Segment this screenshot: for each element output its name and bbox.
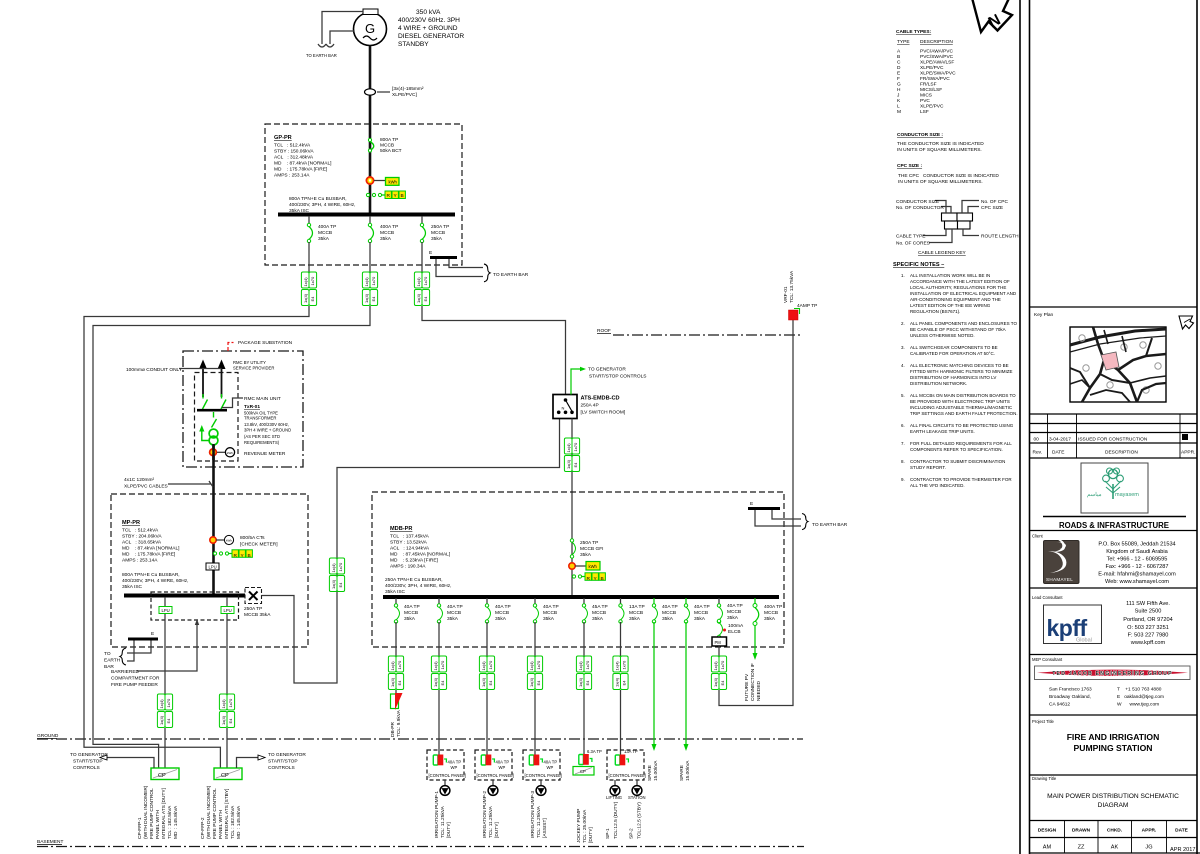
svg-text:JG: JG <box>1145 845 1152 851</box>
svg-text:6.: 6. <box>901 423 905 428</box>
transformer TxR-01 symbol <box>209 429 218 445</box>
svg-text:EARTH: EARTH <box>104 658 121 664</box>
svg-text:IRRIGATION PUMP-2: IRRIGATION PUMP-2 <box>482 791 488 838</box>
signature table <box>1038 821 1196 854</box>
svg-text:LPU: LPU <box>209 565 217 570</box>
svg-text:MD : 145.8kVA: MD : 145.8kVA <box>236 805 242 839</box>
svg-text:250A 4P: 250A 4P <box>581 403 599 409</box>
svg-text:40A TP: 40A TP <box>727 603 743 609</box>
svg-text:H: H <box>897 87 901 93</box>
svg-text:AMPS : 253.14A: AMPS : 253.14A <box>122 558 158 564</box>
svg-text:TO: TO <box>104 651 111 657</box>
svg-text:NEEDED: NEEDED <box>756 680 762 701</box>
svg-text:PUMPING STATION: PUMPING STATION <box>1074 743 1153 753</box>
svg-text:4x1C 120mm²: 4x1C 120mm² <box>124 477 155 483</box>
svg-text:M: M <box>897 109 901 115</box>
package substation enclosure <box>183 340 303 467</box>
MP-PR panel data <box>122 520 180 564</box>
GP-PR feeder breaker 400A no.1 <box>307 216 336 272</box>
CP-FFP-1 label <box>137 785 179 839</box>
north arrow <box>971 0 1012 32</box>
svg-text:P.O. Box 55089, Jeddah 21534: P.O. Box 55089, Jeddah 21534 <box>1098 542 1175 548</box>
svg-text:CABLE TYPES:: CABLE TYPES: <box>896 29 932 35</box>
svg-text:TCL : 512.4kVA: TCL : 512.4kVA <box>274 143 311 149</box>
MDB-PR kWh meter <box>569 562 600 571</box>
svg-text:35kA: 35kA <box>727 615 739 621</box>
generator earth wires to earth bar <box>306 12 363 59</box>
irrigation pump-2 <box>482 780 500 838</box>
MP-PR changeover switch 250A <box>244 588 271 619</box>
DB-PR feeder flag <box>390 690 403 737</box>
MDB branch 8 spare breaker 40A <box>679 598 710 781</box>
MP-PR R-Y-B indicating lamps <box>213 550 252 559</box>
svg-text:111 SW Fifth Ave.: 111 SW Fifth Ave. <box>1126 601 1170 607</box>
svg-text:CA 94612: CA 94612 <box>1049 702 1070 708</box>
svg-text:START/STOP CONTROLS: START/STOP CONTROLS <box>589 374 647 380</box>
svg-text:مياسم: مياسم <box>1087 491 1102 498</box>
svg-text:1.: 1. <box>901 273 905 278</box>
svg-text:(AS PER SEC STD: (AS PER SEC STD <box>244 434 280 439</box>
VRF roof isolator 4AMP <box>783 270 817 320</box>
svg-text:MAIN POWER DISTRIBUTION SCHEMA: MAIN POWER DISTRIBUTION SCHEMATIC <box>1047 793 1179 800</box>
svg-text:No. OF CPC: No. OF CPC <box>981 199 1008 205</box>
svg-text:MD : 145.8kVA: MD : 145.8kVA <box>173 805 179 839</box>
client section <box>1032 534 1176 586</box>
svg-text:ZZ: ZZ <box>1078 845 1085 851</box>
svg-text:[CONTROL PANEL]: [CONTROL PANEL] <box>429 773 466 778</box>
svg-text:ALL INSTALLATION WORK WILL BE: ALL INSTALLATION WORK WILL BE IN <box>910 273 990 278</box>
svg-text:F: 503 227 7980: F: 503 227 7980 <box>1128 633 1169 639</box>
svg-text:MICS: MICS <box>920 93 932 99</box>
svg-text:INCLUDING ADJUSTABLE THERMAL/M: INCLUDING ADJUSTABLE THERMAL/MAGNETIC <box>910 405 1013 410</box>
svg-text:CP: CP <box>158 773 166 779</box>
svg-text:MCCB: MCCB <box>543 610 557 616</box>
svg-text:Key Plan: Key Plan <box>1034 312 1054 318</box>
svg-text:B: B <box>897 54 900 60</box>
key plan <box>1034 312 1166 402</box>
svg-text:MCCB: MCCB <box>764 610 778 616</box>
svg-text:MCCB GFI: MCCB GFI <box>580 546 603 552</box>
transformer earthing arrow <box>199 425 209 441</box>
svg-text:SP-1: SP-1 <box>605 828 611 839</box>
svg-text:[CHECK METER]: [CHECK METER] <box>240 542 278 548</box>
svg-text:40A TP: 40A TP <box>544 760 558 765</box>
MP-PR barriered compartment <box>151 592 239 620</box>
svg-text:MCCB: MCCB <box>727 609 741 615</box>
svg-text:STATION: STATION <box>628 795 646 800</box>
svg-text:ROADS & INFRASTRUCTURE: ROADS & INFRASTRUCTURE <box>1059 521 1169 530</box>
svg-text:R: R <box>234 553 238 559</box>
svg-text:TCL:12.5 (STBY): TCL:12.5 (STBY) <box>637 802 643 839</box>
svg-text:FOR FULL DETAILED REQUIREMENTS: FOR FULL DETAILED REQUIREMENTS FOR ALL <box>910 441 1012 446</box>
svg-text:ELCB: ELCB <box>728 629 741 635</box>
svg-text:DESCRIPTION: DESCRIPTION <box>1105 450 1138 456</box>
svg-text:MCCB 35kA: MCCB 35kA <box>244 612 271 618</box>
CT symbol on generator cable <box>365 86 424 98</box>
svg-text:O: 503 227 3251: O: 503 227 3251 <box>1127 625 1169 631</box>
svg-text:13A TP: 13A TP <box>629 604 645 610</box>
svg-text:ACL : 124.94kVA: ACL : 124.94kVA <box>390 546 430 552</box>
svg-text:MCCB: MCCB <box>629 610 643 616</box>
CP-FFP-2 label <box>200 785 242 839</box>
svg-text:DESIGN: DESIGN <box>1038 828 1057 834</box>
svg-text:9.: 9. <box>901 477 905 482</box>
wire branch 5 to jockey pump starter <box>583 690 585 754</box>
svg-text:2.: 2. <box>901 321 905 326</box>
svg-text:XLPE/PVC CABLES: XLPE/PVC CABLES <box>124 484 168 490</box>
svg-text:400A TP: 400A TP <box>318 224 336 230</box>
svg-text:FITTED WITH HARMONIC FILTERS T: FITTED WITH HARMONIC FILTERS TO MINIMIZE <box>910 369 1013 374</box>
conduit note <box>126 367 222 373</box>
svg-text:MD : 87.4kVA [NORMAL]: MD : 87.4kVA [NORMAL] <box>122 546 180 552</box>
svg-text:ALL MCCBs ON MAIN DISTRIBUTION: ALL MCCBs ON MAIN DISTRIBUTION BOARDS TO <box>910 393 1016 398</box>
RMU label <box>222 396 281 408</box>
wire MP-PR changeover to ATS normal input <box>262 419 560 684</box>
svg-text:SHAMAYEL: SHAMAYEL <box>1046 577 1073 582</box>
svg-text:35kA ISC: 35kA ISC <box>385 589 406 595</box>
svg-text:MCCB: MCCB <box>380 230 394 236</box>
svg-text:800/5A CTs: 800/5A CTs <box>240 535 265 541</box>
svg-text:35kA: 35kA <box>662 616 674 622</box>
svg-text:R: R <box>387 193 391 199</box>
MDB branch 5 breaker 45A (jockey pump) <box>582 598 607 656</box>
generator main cable down <box>369 46 372 214</box>
svg-text:kWh: kWh <box>589 564 598 569</box>
barriered compartment note <box>111 619 199 688</box>
irrigation pump-1 control panel <box>427 750 466 780</box>
svg-text:(WITH DUAL INCOMER): (WITH DUAL INCOMER) <box>206 785 212 839</box>
svg-text:FIRE PUMP FEEDER: FIRE PUMP FEEDER <box>111 682 158 688</box>
svg-text:CPC SIZE: CPC SIZE <box>981 205 1003 211</box>
notes: cable types table <box>896 29 956 115</box>
svg-text:35kA: 35kA <box>543 616 555 622</box>
cable legend key diagram <box>896 199 1019 256</box>
RMU inner dashed enclosure <box>195 373 239 462</box>
svg-text:35kA: 35kA <box>592 616 604 622</box>
svg-text:DIESEL GENERATOR: DIESEL GENERATOR <box>398 33 464 40</box>
svg-text:3PH 4 WIRE + GROUND: 3PH 4 WIRE + GROUND <box>244 428 291 433</box>
svg-text:LATEST EDITION OF THE IEE WIRI: LATEST EDITION OF THE IEE WIRING <box>910 303 991 308</box>
wire fire feeder 2 to CP <box>226 728 228 768</box>
svg-text:CONTRACTOR TO SUBMIT DISCRIMIN: CONTRACTOR TO SUBMIT DISCRIMINATION <box>910 459 1005 464</box>
svg-text:TYPE: TYPE <box>897 39 910 45</box>
svg-text:[DUTY]: [DUTY] <box>446 822 452 838</box>
svg-text:IRRIGATION PUMP-1: IRRIGATION PUMP-1 <box>434 791 440 838</box>
CP-FFP-2 generator control wire <box>237 752 307 771</box>
svg-text:TCL : 25.00kVA: TCL : 25.00kVA <box>582 809 588 843</box>
svg-text:STBY : 204.06kVA: STBY : 204.06kVA <box>122 534 162 540</box>
MEP consultant section <box>1032 657 1190 708</box>
svg-text:LSF: LSF <box>920 109 929 115</box>
svg-text:E: E <box>897 71 900 77</box>
svg-text:13A TP: 13A TP <box>624 749 638 754</box>
svg-text:UNLESS OTHERWISE NOTED.: UNLESS OTHERWISE NOTED. <box>910 333 975 338</box>
transformer isolator switch <box>212 412 217 428</box>
MP-PR fire feeder 1 LPU <box>159 597 172 694</box>
wire branch 4 to control panel <box>534 690 536 756</box>
MDB branch 10 breaker 400A (future PV) <box>744 598 782 701</box>
GP-PR feeder breaker 250A no.3 <box>420 216 449 272</box>
svg-text:MCCB: MCCB <box>431 230 445 236</box>
MP-PR fire feeder 1 cable tag <box>157 694 172 728</box>
svg-text:CONTROLS: CONTROLS <box>268 765 295 771</box>
svg-text:MCCB: MCCB <box>592 610 606 616</box>
ground level line <box>37 733 803 739</box>
VRF PPM meter box <box>712 637 727 656</box>
svg-text:C: C <box>897 60 901 66</box>
svg-text:AM: AM <box>1043 845 1052 851</box>
revenue meter <box>210 445 286 460</box>
svg-text:TCL:12.5 (DUTY): TCL:12.5 (DUTY) <box>613 801 619 839</box>
GP-PR feeder 2 cable tag <box>362 272 377 306</box>
svg-text:ROUTE LENGTH: ROUTE LENGTH <box>981 234 1019 240</box>
svg-text:E: E <box>151 631 154 637</box>
svg-text:DRAWN: DRAWN <box>1072 828 1091 834</box>
transformer LV cable down to MP-PR <box>212 444 215 594</box>
svg-text:FIRE AND IRRIGATION: FIRE AND IRRIGATION <box>1067 732 1160 742</box>
jockey pump label <box>576 809 594 843</box>
svg-text:APR 2017: APR 2017 <box>1170 847 1196 853</box>
svg-text:3-04-2017: 3-04-2017 <box>1049 437 1071 443</box>
svg-text:www.kpff.com: www.kpff.com <box>1130 640 1166 646</box>
lifting station control panel <box>607 749 646 780</box>
svg-text:Web: www.shamayel.com: Web: www.shamayel.com <box>1105 579 1169 585</box>
wire GP-PR feeder3 to ATS standby input <box>422 306 566 395</box>
svg-text:B: B <box>401 193 404 199</box>
GP-PR busbar <box>278 213 455 217</box>
svg-text:350 kVA: 350 kVA <box>416 9 441 16</box>
MP-PR fire feeder 2 cable tag <box>219 694 234 728</box>
svg-text:4.: 4. <box>901 363 905 368</box>
svg-text:LPU: LPU <box>224 608 232 613</box>
irrigation pump-3 control panel <box>523 750 562 780</box>
svg-text:PVC/AWA/PVC: PVC/AWA/PVC <box>920 49 953 55</box>
svg-text:WP: WP <box>547 765 554 770</box>
svg-text:35kA: 35kA <box>380 236 392 242</box>
svg-text:MCCB: MCCB <box>495 610 509 616</box>
drawing title section <box>1032 776 1179 809</box>
svg-text:FIRE PUMP CONTROL: FIRE PUMP CONTROL <box>149 788 155 839</box>
svg-text:6.3A TP: 6.3A TP <box>587 749 602 754</box>
svg-text:MCCB: MCCB <box>662 610 676 616</box>
MP-PR panel dashed enclosure <box>111 494 308 647</box>
svg-text:ACL : 312.48kVA: ACL : 312.48kVA <box>274 155 314 161</box>
svg-text:ALL PANEL COMPONENTS AND ENCLO: ALL PANEL COMPONENTS AND ENCLOSURES TO <box>910 321 1017 326</box>
svg-text:TCL: 11.25kVA: TCL: 11.25kVA <box>536 805 542 838</box>
svg-text:XLPE/PVC]: XLPE/PVC] <box>392 92 417 98</box>
svg-text:400/230V, 3PH, 4 WIRE, 60Hz,: 400/230V, 3PH, 4 WIRE, 60Hz, <box>385 583 451 589</box>
utility incoming feeder arrows <box>199 360 226 398</box>
svg-text:35kA: 35kA <box>318 236 330 242</box>
GP-PR R-Y-B indicating lamps <box>366 191 405 199</box>
svg-text:JOCKEY PUMP: JOCKEY PUMP <box>576 809 582 843</box>
svg-text:TCL : 182.5kVA: TCL : 182.5kVA <box>167 805 173 839</box>
svg-text:35kA: 35kA <box>447 616 459 622</box>
svg-text:ACCORDANCE WITH THE LATEST EDI: ACCORDANCE WITH THE LATEST EDITION OF <box>910 279 1010 284</box>
svg-text:BAR: BAR <box>104 664 114 670</box>
svg-text:DB-PR: DB-PR <box>390 722 396 737</box>
CP-FFP-1 generator control wire <box>70 752 154 771</box>
basement level line <box>37 839 804 847</box>
svg-text:PVC: PVC <box>920 98 930 104</box>
svg-text:CONNECTION IF: CONNECTION IF <box>750 663 756 701</box>
MDB branch 3 cable tag <box>479 656 494 690</box>
svg-text:No. OF CONDUCTOR: No. OF CONDUCTOR <box>896 205 944 211</box>
svg-text:THE CONDUCTOR SIZE IS INDICATE: THE CONDUCTOR SIZE IS INDICATED <box>897 141 984 147</box>
lifting station pumps SP-1 SP-2 <box>605 780 646 839</box>
svg-text:800A TPN+E Cu BUSBAR,: 800A TPN+E Cu BUSBAR, <box>122 572 180 578</box>
svg-text:DISTRIBUTION NETWORK.: DISTRIBUTION NETWORK. <box>910 381 967 386</box>
svg-text:STBY : 150.06kVA: STBY : 150.06kVA <box>274 149 314 155</box>
svg-text:35kA ISC: 35kA ISC <box>122 584 143 590</box>
MDB branch 7 spare breaker 40A <box>647 598 678 781</box>
jockey pump VFD starter <box>579 749 602 765</box>
svg-text:40A TP: 40A TP <box>662 604 678 610</box>
svg-text:400/230V, 3PH, 4 WIRE, 60Hz,: 400/230V, 3PH, 4 WIRE, 60Hz, <box>289 202 355 208</box>
svg-text:TCL : 182.5kVA: TCL : 182.5kVA <box>230 805 236 839</box>
svg-text:DISTRIBUTION OF HARMONICS INTO: DISTRIBUTION OF HARMONICS INTO LV <box>910 375 996 380</box>
svg-text:CONDUCTOR SIZE: CONDUCTOR SIZE <box>896 199 939 205</box>
svg-text:TCL: 11.25kVA: TCL: 11.25kVA <box>488 805 494 838</box>
svg-text:250A TPN+E Cu BUSBAR,: 250A TPN+E Cu BUSBAR, <box>385 577 443 583</box>
svg-text:400/230V, 3PH, 4 WIRE, 60Hz,: 400/230V, 3PH, 4 WIRE, 60Hz, <box>122 578 188 584</box>
ATS label <box>581 396 626 416</box>
jockey pump CP box <box>573 767 594 776</box>
svg-text:MCCB: MCCB <box>404 610 418 616</box>
svg-text:Portland, OR 97204: Portland, OR 97204 <box>1123 617 1172 623</box>
svg-text:XLPE/PVC: XLPE/PVC <box>920 65 944 71</box>
svg-text:L: L <box>897 104 900 110</box>
svg-text:TO EARTH BAR: TO EARTH BAR <box>812 522 848 528</box>
svg-text:FIRE PUMP CONTROL: FIRE PUMP CONTROL <box>212 788 218 839</box>
svg-text:[CONTROL PANEL]: [CONTROL PANEL] <box>477 773 514 778</box>
svg-text:CONTRACTOR TO PROVIDE THERMIST: CONTRACTOR TO PROVIDE THERMISTER FOR <box>910 477 1012 482</box>
svg-text:SPARE: SPARE <box>679 765 685 781</box>
svg-text:7.: 7. <box>901 441 905 446</box>
svg-text:35kA: 35kA <box>404 616 416 622</box>
GP-PR panel dashed enclosure <box>265 124 462 265</box>
svg-text:GP-PR: GP-PR <box>274 135 292 141</box>
GP-PR busbar label <box>289 196 355 214</box>
MP-PR earth bar <box>104 631 158 670</box>
svg-text:CABLE TYPE: CABLE TYPE <box>896 234 926 240</box>
MDB branch 4 breaker 40A (irrigation pump-3) <box>533 598 558 656</box>
MDB-PR busbar label <box>385 577 451 595</box>
svg-text:BE CAPABLE OF PSCC WITHSTAND O: BE CAPABLE OF PSCC WITHSTAND OF 70kA <box>910 327 1006 332</box>
svg-text:400A TP: 400A TP <box>380 224 398 230</box>
svg-text:SERVICE PROVIDER: SERVICE PROVIDER <box>233 366 274 371</box>
svg-text:ALL THE VFD INDICATED.: ALL THE VFD INDICATED. <box>910 483 965 488</box>
svg-text:G: G <box>365 21 375 36</box>
svg-text:Global: Global <box>1076 638 1092 644</box>
svg-text:CP: CP <box>221 773 229 779</box>
svg-text:ATS-EMDB-CD: ATS-EMDB-CD <box>581 396 620 402</box>
MDB-PR R-Y-B indicating lamps <box>572 573 605 582</box>
svg-text:MD : 175.78kVA [FIRE]: MD : 175.78kVA [FIRE] <box>274 167 327 173</box>
svg-text:STANDBY: STANDBY <box>398 41 429 48</box>
svg-text:13.8kV, 400/230V 60Hz,: 13.8kV, 400/230V 60Hz, <box>244 422 289 427</box>
MDB branch 1 cable tag <box>388 656 403 690</box>
svg-text:[CONTROL PANEL]: [CONTROL PANEL] <box>609 773 646 778</box>
svg-text:15.00kVA: 15.00kVA <box>685 760 691 781</box>
svg-text:CONDUCTOR SIZE :: CONDUCTOR SIZE : <box>897 132 943 138</box>
svg-text:DATE: DATE <box>1175 828 1189 834</box>
MP-PR check meter CT <box>210 535 278 548</box>
svg-text:Kingdom of Saudi Arabia: Kingdom of Saudi Arabia <box>1106 549 1168 555</box>
svg-text:LOCAL AUTHORITY, REGULATIONS F: LOCAL AUTHORITY, REGULATIONS FOR THE <box>910 285 1006 290</box>
svg-text:Suite 2500: Suite 2500 <box>1135 609 1162 615</box>
svg-text:35kA: 35kA <box>629 616 641 622</box>
svg-text:TxR-01: TxR-01 <box>244 404 260 410</box>
svg-text:INTEGRAL ATS [DUTY]: INTEGRAL ATS [DUTY] <box>161 788 167 839</box>
svg-text:MD : 5.23kVA [FIRE]: MD : 5.23kVA [FIRE] <box>390 558 438 564</box>
svg-text:DATE: DATE <box>1052 450 1064 456</box>
svg-text:FR/SWA/PVC: FR/SWA/PVC <box>920 76 950 82</box>
MDB-PR panel dashed enclosure <box>372 492 784 647</box>
ATS output cable tag <box>564 438 579 472</box>
svg-text:5.: 5. <box>901 393 905 398</box>
svg-text:35kA: 35kA <box>694 616 706 622</box>
svg-text:COMPARTMENT FOR: COMPARTMENT FOR <box>111 676 160 682</box>
svg-text:PANEL WITH: PANEL WITH <box>218 810 224 839</box>
svg-text:APPR.: APPR. <box>1181 450 1195 456</box>
CP-FFP-2 control panel <box>214 768 242 780</box>
svg-text:[DUTY]: [DUTY] <box>588 827 594 843</box>
svg-text:kWh: kWh <box>227 451 233 455</box>
svg-text:REGULATION (BS7671).: REGULATION (BS7671). <box>910 309 960 314</box>
svg-text:[LV SWITCH ROOM]: [LV SWITCH ROOM] <box>581 410 626 416</box>
svg-text:(WITH DUAL INCOMER): (WITH DUAL INCOMER) <box>143 785 149 839</box>
irrigation pump-3 <box>530 780 548 838</box>
svg-text:STUDY REPORT.: STUDY REPORT. <box>910 465 946 470</box>
MP-PR to ATS cable tag <box>329 558 344 592</box>
svg-text:N: N <box>562 406 565 411</box>
generator G1 diesel standby <box>354 9 387 46</box>
svg-text:400A TP: 400A TP <box>764 604 782 610</box>
MDB branch 6 cable tag <box>613 656 628 690</box>
MP-PR busbar label <box>122 572 188 590</box>
GP-PR panel data <box>274 135 332 179</box>
wire GP-PR feeder2 to CP-FFP-2 <box>93 306 370 768</box>
svg-text:RMC MAIN UNIT: RMC MAIN UNIT <box>244 396 281 402</box>
svg-text:250A TP: 250A TP <box>431 224 449 230</box>
svg-text:E-mail: hfahmi@shamayel.com: E-mail: hfahmi@shamayel.com <box>1098 572 1176 578</box>
svg-text:XLPE/SWA/PVC: XLPE/SWA/PVC <box>920 71 956 77</box>
LV cable label <box>124 477 213 490</box>
wire ATS output to MDB-PR <box>571 419 573 596</box>
svg-text:E oakland@tjeg.com: E oakland@tjeg.com <box>1117 694 1164 700</box>
svg-text:[CONTROL PANEL]: [CONTROL PANEL] <box>525 773 562 778</box>
svg-text:IN UNITS OF SQUARE MILLIMETERS: IN UNITS OF SQUARE MILLIMETERS. <box>897 147 982 153</box>
svg-text:40A TP: 40A TP <box>496 760 510 765</box>
lead consultant section <box>1032 595 1173 646</box>
wire branch 6 to lifting station panel <box>620 690 622 756</box>
svg-text:TCL: 13.75kVA: TCL: 13.75kVA <box>789 270 795 303</box>
GP-PR kWh meter <box>366 177 399 185</box>
MP-PR fire feeder 2 LPU <box>221 597 234 694</box>
svg-text:BE PROVIDED WITH ELECTRONIC TR: BE PROVIDED WITH ELECTRONIC TRIP UNITS <box>910 399 1010 404</box>
irrigation pump-1 <box>434 780 452 838</box>
svg-text:FR/LSF: FR/LSF <box>920 82 937 88</box>
svg-text:XLPE/AWA/LSF: XLPE/AWA/LSF <box>920 60 954 66</box>
utility note <box>233 360 274 371</box>
svg-text:AMPS : 190.34A: AMPS : 190.34A <box>390 564 426 570</box>
svg-text:Fax: +966 - 12 - 6067287: Fax: +966 - 12 - 6067287 <box>1106 564 1169 570</box>
svg-text:15.00kVA: 15.00kVA <box>653 760 659 781</box>
svg-text:45A TP: 45A TP <box>592 604 608 610</box>
svg-text:SP-2: SP-2 <box>629 828 635 839</box>
revision table <box>1033 414 1196 458</box>
